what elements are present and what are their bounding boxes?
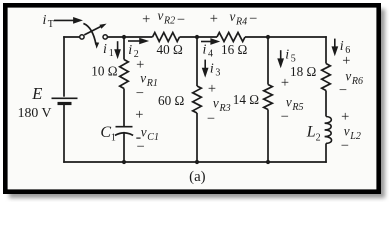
svg-text:−: − <box>281 109 289 125</box>
wire right branch upper <box>325 36 327 63</box>
current i4 arrow <box>201 41 213 43</box>
current i3 arrow <box>204 60 206 71</box>
svg-text:180 V: 180 V <box>18 105 52 120</box>
switch blade arrowhead <box>99 24 106 29</box>
svg-text:v: v <box>230 9 236 24</box>
svg-text:18 Ω: 18 Ω <box>290 64 316 79</box>
svg-text:L2: L2 <box>349 131 361 142</box>
wire left vertical upper (E top lead) <box>63 36 65 96</box>
svg-text:v: v <box>141 125 147 140</box>
resistor R5 14ohm zigzag <box>264 85 273 110</box>
svg-text:−: − <box>249 11 257 27</box>
svg-text:2: 2 <box>316 132 321 143</box>
svg-text:i: i <box>285 48 289 63</box>
wire top rail: switch to R2 <box>107 36 152 38</box>
current i2 arrow <box>128 40 142 42</box>
svg-text:1: 1 <box>111 133 116 144</box>
svg-text:v: v <box>140 70 146 85</box>
svg-text:4: 4 <box>208 48 213 59</box>
switch terminal left <box>80 35 84 39</box>
svg-text:v: v <box>286 95 292 110</box>
svg-text:10 Ω: 10 Ω <box>91 63 117 78</box>
label vC1 with polarity <box>136 137 140 139</box>
wire branch1 upper <box>123 37 125 60</box>
wire branch3 lower <box>267 110 269 163</box>
battery E long plate <box>52 97 78 99</box>
resistor R2 40ohm zigzag <box>153 33 180 42</box>
switch terminal right <box>103 35 107 39</box>
svg-text:C: C <box>100 124 111 141</box>
junction node bottom branch1 <box>122 160 126 164</box>
svg-text:v: v <box>158 8 164 23</box>
wire top rail: R2 to R4 <box>180 36 218 38</box>
wire right branch middle <box>325 91 327 117</box>
svg-text:16 Ω: 16 Ω <box>221 42 247 57</box>
switch blade <box>84 26 102 35</box>
svg-text:14 Ω: 14 Ω <box>233 92 259 107</box>
inductor L2 coil <box>325 117 332 144</box>
switch closing arc <box>83 23 96 44</box>
resistor R3 60ohm zigzag <box>193 86 202 113</box>
svg-text:i: i <box>203 42 207 57</box>
resistor 10ohm zigzag <box>120 60 129 89</box>
svg-text:i: i <box>128 43 132 58</box>
junction node bottom branch2 <box>195 160 199 164</box>
resistor R6 18ohm zigzag <box>322 64 331 91</box>
svg-text:i: i <box>340 39 344 54</box>
svg-text:+: + <box>210 11 218 27</box>
wire top-left horizontal to switch <box>63 36 80 38</box>
svg-text:1: 1 <box>109 48 114 59</box>
svg-text:−: − <box>339 83 347 99</box>
svg-text:−: − <box>137 139 145 155</box>
svg-text:R3: R3 <box>219 103 231 114</box>
svg-text:+: + <box>142 12 150 28</box>
svg-text:40 Ω: 40 Ω <box>157 42 183 57</box>
svg-text:3: 3 <box>215 67 220 78</box>
drop shadow <box>9 9 385 198</box>
wire branch2 lower <box>196 113 198 162</box>
svg-text:i: i <box>43 13 47 28</box>
svg-text:R2: R2 <box>163 16 175 27</box>
junction node top branch3 <box>266 35 270 39</box>
svg-text:E: E <box>31 84 42 103</box>
svg-text:+: + <box>342 53 350 69</box>
svg-text:R6: R6 <box>351 76 363 87</box>
wire branch3 upper <box>267 37 269 85</box>
svg-text:R1: R1 <box>146 78 158 89</box>
svg-text:v: v <box>213 96 219 111</box>
capacitor C1 curved plate <box>115 133 133 136</box>
junction node bottom branch3 <box>266 160 270 164</box>
svg-text:i: i <box>210 61 214 76</box>
svg-text:−: − <box>136 86 144 102</box>
svg-text:60 Ω: 60 Ω <box>158 93 184 108</box>
svg-text:C1: C1 <box>147 132 159 143</box>
svg-text:+: + <box>281 75 289 91</box>
svg-text:−: − <box>177 12 185 28</box>
svg-text:v: v <box>344 124 350 139</box>
svg-text:L: L <box>306 123 316 140</box>
svg-text:(a): (a) <box>189 169 205 185</box>
svg-text:R4: R4 <box>235 17 247 28</box>
svg-text:+: + <box>135 107 143 123</box>
wire left vertical lower (E bottom lead) <box>63 104 65 163</box>
current i1 arrow <box>117 41 119 51</box>
wire top rail: R4 to right corner <box>245 36 327 38</box>
current i6 arrow <box>334 39 336 49</box>
current i5 arrow <box>280 50 282 61</box>
svg-text:−: − <box>341 138 349 154</box>
wire branch1 lower (C1 to bottom) <box>123 132 125 162</box>
wire right branch lower <box>325 143 327 162</box>
junction node top branch2 <box>195 35 199 39</box>
figure panel with border frame <box>5 5 378 191</box>
svg-text:5: 5 <box>291 54 296 65</box>
resistor R4 16ohm zigzag <box>217 33 245 42</box>
svg-text:−: − <box>207 111 215 127</box>
wire bottom rail <box>63 161 327 163</box>
switch arc arrowhead <box>95 42 99 49</box>
current iT arrow <box>54 19 76 21</box>
svg-text:v: v <box>345 69 351 84</box>
wire branch1 middle (to C1) <box>123 89 125 127</box>
svg-text:i: i <box>103 42 107 57</box>
junction node top branch1 <box>122 35 126 39</box>
wire branch2 upper <box>196 37 198 86</box>
svg-text:T: T <box>48 19 54 30</box>
capacitor C1 top plate <box>116 126 133 128</box>
svg-text:R5: R5 <box>291 102 303 113</box>
battery E short plate <box>58 102 72 105</box>
